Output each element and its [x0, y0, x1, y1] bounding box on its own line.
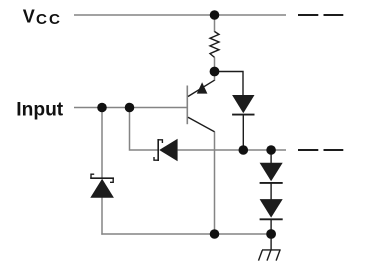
- wire resistor top lead: [214, 17, 216, 32]
- diode D5: [260, 183, 283, 234]
- node emitter/resistor junction: [210, 67, 220, 77]
- node D5 cathode on bottom rail: [266, 229, 276, 239]
- diode D4: [260, 150, 283, 183]
- wire D3 anode to bottom rail: [101, 198, 103, 235]
- Schottky diode D3: [90, 174, 114, 198]
- wire D2 cathode row to right cut: [178, 149, 286, 151]
- wire resistor bottom lead: [214, 57, 216, 68]
- wire emitter lead to node: [214, 75, 216, 81]
- ground: [259, 237, 281, 261]
- wire bottom rail: [101, 233, 271, 235]
- node input A: [97, 103, 107, 113]
- wire Input rail: [74, 107, 187, 109]
- node collector on bottom rail: [210, 229, 220, 239]
- node D4 anode on mid row: [266, 145, 276, 155]
- resistor R1: [210, 32, 219, 58]
- node D1 cathode on mid row: [239, 145, 249, 155]
- diode D1: [232, 95, 254, 150]
- wire collector down to bottom rail: [214, 132, 216, 235]
- svg-text:Input: Input: [16, 99, 63, 120]
- transistor Q1 base bar: [186, 86, 188, 125]
- wire input node A down to Schottky D3: [101, 108, 103, 178]
- Schottky diode D2: [154, 139, 178, 162]
- wire Vcc rail: [74, 14, 286, 16]
- node on Vcc rail: [210, 10, 220, 20]
- transistor Q1 collector: [188, 117, 215, 132]
- svg-text:VCC: VCC: [23, 6, 62, 28]
- wire Vcc rail continuation dashes: [298, 14, 343, 16]
- wire emitter node to D1 anode: [217, 72, 243, 96]
- node input B: [125, 103, 135, 113]
- transistor Q1 emitter: [188, 80, 215, 96]
- wire mid row continuation dashes: [298, 149, 343, 151]
- transistor Q1 emitter arrow: [197, 82, 208, 93]
- wire input node B down and right to Schottky D2: [130, 108, 159, 151]
